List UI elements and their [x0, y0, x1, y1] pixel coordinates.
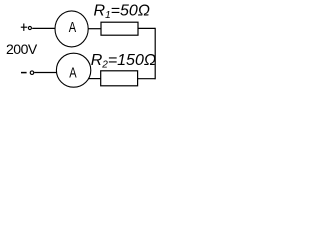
- svg-text:R1=50Ω: R1=50Ω: [94, 2, 150, 21]
- wire: plus terminal to ammeter A1: [32, 27, 55, 29]
- wire: right vertical rail: [154, 28, 156, 80]
- wire: ammeter A1 to resistor R1: [88, 28, 101, 30]
- wire: resistor R2 to ammeter A2: [89, 78, 101, 80]
- resistor R1 body: [101, 22, 138, 35]
- wire: resistor R1 to right rail: [138, 27, 155, 29]
- svg-text:A: A: [69, 19, 77, 36]
- ammeter A2 body: [56, 53, 90, 87]
- wire: ammeter A2 to minus terminal: [34, 72, 56, 74]
- wire: right rail to resistor R2: [138, 78, 156, 80]
- svg-text:R2=150Ω: R2=150Ω: [91, 52, 156, 71]
- svg-text:A: A: [69, 64, 77, 81]
- minus sign of source negative terminal: [21, 72, 27, 74]
- ammeter A1 body: [55, 11, 88, 47]
- plus sign of source positive terminal: [21, 24, 27, 31]
- negative terminal node: [30, 71, 34, 75]
- resistor R2 body: [101, 71, 138, 86]
- svg-text:200V: 200V: [6, 41, 38, 57]
- positive terminal node: [28, 26, 31, 29]
